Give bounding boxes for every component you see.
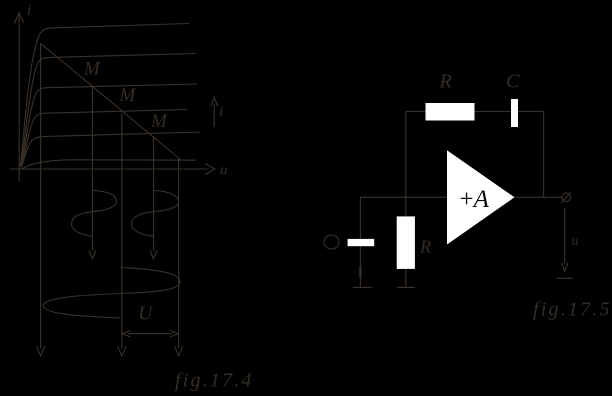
ground source xyxy=(353,286,372,288)
wire: source vertical lower xyxy=(359,246,361,287)
svg-text:i: i xyxy=(27,2,31,19)
vertical line 4 with arrow xyxy=(150,137,157,260)
wire: C to right corner xyxy=(518,111,544,113)
ground resistor xyxy=(397,286,415,288)
small sine wave 1 xyxy=(72,191,117,237)
U interval double arrow xyxy=(122,331,178,338)
big sine wave xyxy=(43,268,180,319)
svg-text:R: R xyxy=(419,237,431,257)
battery plate dark xyxy=(359,267,361,277)
vertical line 5 with arrow xyxy=(175,158,183,356)
svg-text:fig.17.5: fig.17.5 xyxy=(533,299,612,321)
vertical line 2 with arrow xyxy=(89,86,96,259)
wire: circuit top feedback left xyxy=(406,111,426,113)
svg-text:u: u xyxy=(572,234,579,249)
source plate (white) xyxy=(348,239,375,246)
svg-text:i: i xyxy=(219,104,223,120)
svg-text:fig.17.4: fig.17.4 xyxy=(175,370,254,392)
vertical line 1 with arrow xyxy=(37,43,45,356)
wire: right vertical from C xyxy=(543,112,545,198)
curve 2 xyxy=(21,54,196,167)
output terminal circle xyxy=(562,193,571,202)
wire: left vertical xyxy=(405,112,407,217)
input resistor R (white) xyxy=(397,216,415,269)
svg-text:M: M xyxy=(119,85,137,106)
wire: input horizontal xyxy=(360,196,447,198)
svg-text:U: U xyxy=(138,303,154,325)
feedback resistor R (white) xyxy=(426,103,475,121)
wire: output xyxy=(515,196,562,198)
op-amp triangle U1 xyxy=(447,150,515,244)
svg-text:M: M xyxy=(83,59,101,80)
svg-text:C: C xyxy=(506,71,520,93)
wire: R to C xyxy=(475,111,512,113)
i arrow beside graph xyxy=(211,98,218,127)
source symbol circle glyph xyxy=(324,235,339,249)
curve 3 xyxy=(21,84,197,167)
curve 4 xyxy=(22,110,188,168)
vertical line 3 with arrow xyxy=(118,113,126,356)
svg-text:+A: +A xyxy=(460,186,490,213)
wire: below input resistor xyxy=(405,269,407,288)
capacitor C plate (white) xyxy=(511,99,518,127)
small sine wave 2 xyxy=(132,191,179,237)
output reference tick xyxy=(557,277,573,279)
y axis i xyxy=(15,13,24,182)
svg-text:M: M xyxy=(150,111,168,132)
wire: source vertical upper xyxy=(359,197,361,239)
curve 5 xyxy=(22,132,201,168)
load line xyxy=(41,43,181,160)
curve 1 xyxy=(21,24,190,167)
x axis u xyxy=(9,164,215,175)
svg-text:R: R xyxy=(439,71,452,93)
svg-text:u: u xyxy=(220,163,228,179)
curve 6 xyxy=(22,160,197,169)
output u arrow xyxy=(561,208,568,271)
